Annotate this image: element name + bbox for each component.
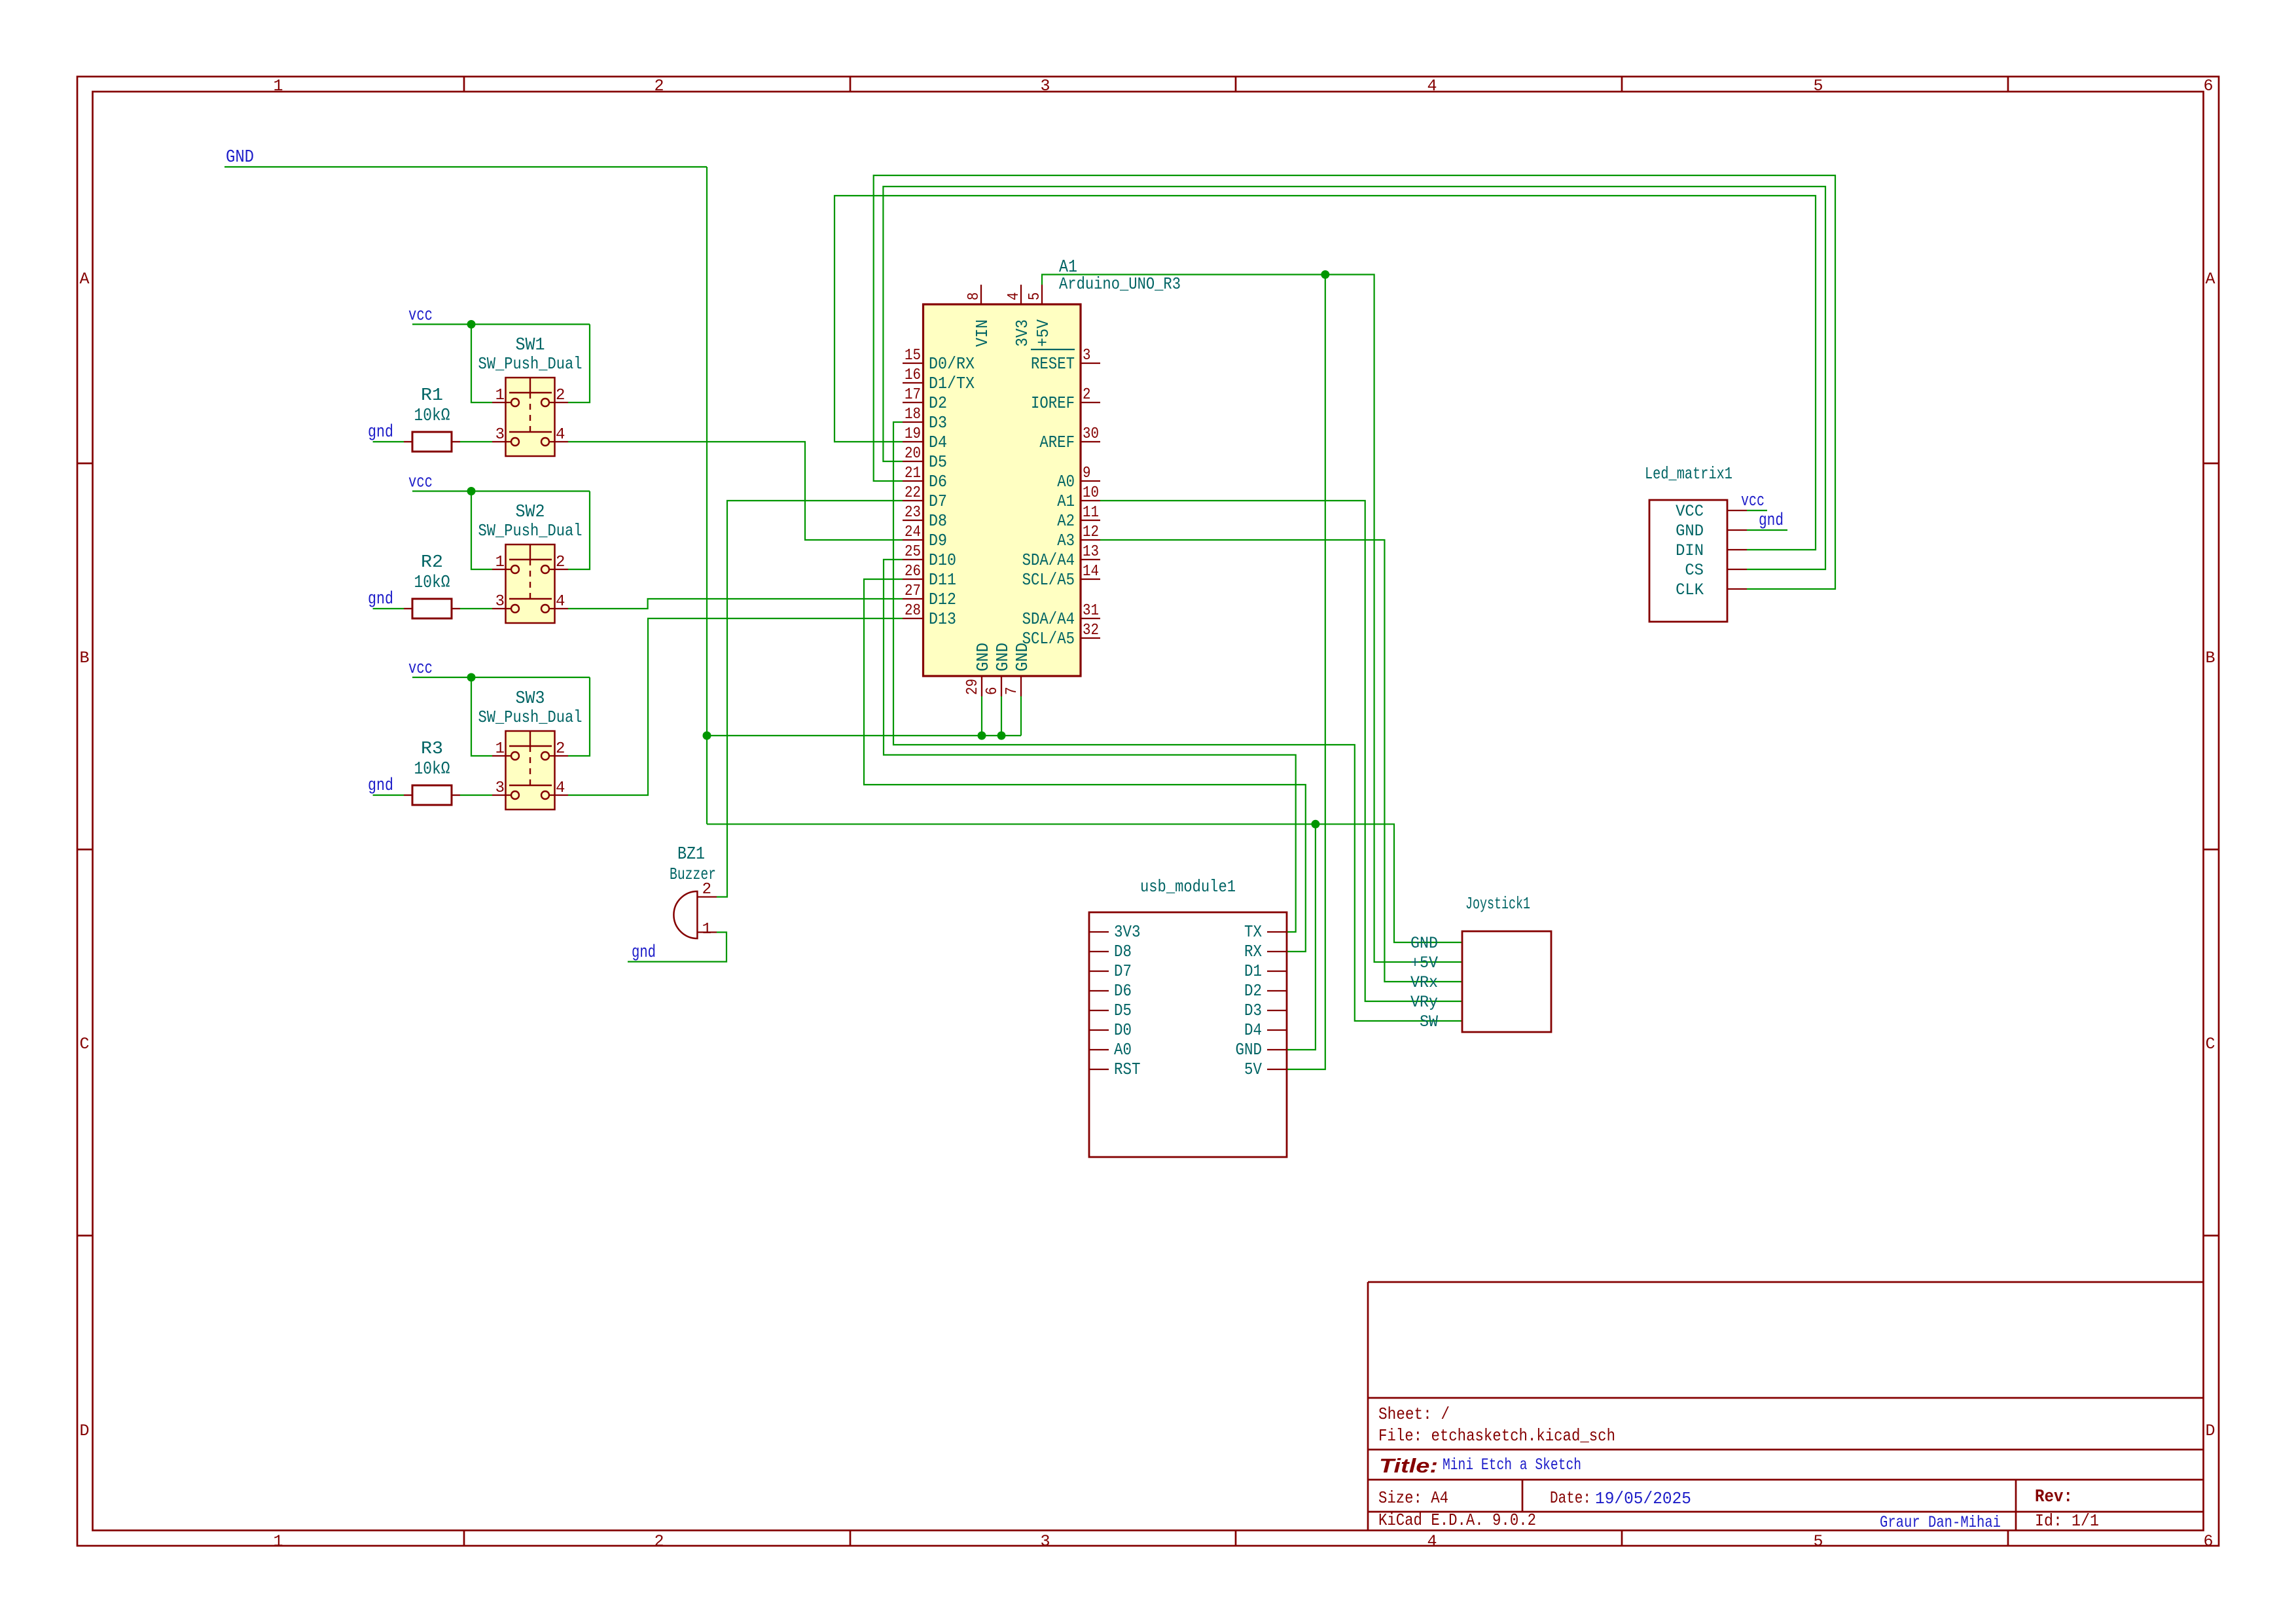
svg-text:26: 26	[905, 563, 921, 580]
svg-text:Graur Dan-Mihai: Graur Dan-Mihai	[1880, 1513, 2001, 1532]
svg-text:16: 16	[905, 366, 921, 384]
wire D10 to usb TX	[884, 560, 1296, 932]
svg-text:SDA/A4: SDA/A4	[1022, 550, 1075, 570]
svg-text:CLK: CLK	[1676, 580, 1704, 599]
wire +5V to usb 5V	[1287, 275, 1325, 1070]
Led_matrix1 pin CLK	[1676, 580, 1747, 599]
svg-text:D12: D12	[929, 590, 956, 609]
wire SW2 pin4 to D12	[568, 599, 903, 609]
svg-text:RX: RX	[1244, 942, 1262, 961]
A1 pin 24 D9	[903, 524, 947, 550]
svg-text:GND: GND	[1013, 643, 1032, 671]
resistor R2	[404, 599, 460, 618]
svg-text:A3: A3	[1057, 531, 1075, 550]
A1 pin 2 IOREF	[1031, 386, 1100, 413]
svg-text:5: 5	[1813, 1532, 1823, 1551]
buzzer BZ1	[673, 891, 717, 938]
svg-text:RESET: RESET	[1031, 354, 1075, 374]
svg-text:25: 25	[905, 543, 921, 561]
junction GND pin29	[978, 732, 986, 740]
wire D3 to joystick SW	[893, 422, 1462, 1021]
svg-text:D: D	[2205, 1421, 2215, 1440]
svg-text:32: 32	[1083, 622, 1099, 639]
A1 pin 18 D3	[903, 406, 947, 433]
svg-text:4: 4	[556, 426, 565, 444]
svg-text:D: D	[79, 1421, 89, 1440]
svg-text:DIN: DIN	[1676, 541, 1704, 560]
svg-text:Arduino_UNO_R3: Arduino_UNO_R3	[1059, 274, 1181, 294]
svg-text:8: 8	[965, 293, 983, 301]
junction +5V	[1321, 270, 1329, 279]
svg-text:4: 4	[556, 779, 565, 797]
switch SW3 SW_Push_Dual	[492, 731, 568, 810]
svg-text:B: B	[79, 649, 89, 668]
wire CLK net: D6 to Led_matrix CLK	[874, 175, 1835, 589]
svg-text:10kΩ: 10kΩ	[414, 573, 450, 593]
wire SW2 pin2 to vcc	[568, 491, 590, 570]
svg-text:+5V: +5V	[1033, 319, 1053, 347]
usb_module1 pin 5V	[1244, 1060, 1287, 1079]
junction vcc3	[467, 673, 476, 682]
svg-text:gnd: gnd	[368, 590, 393, 609]
svg-text:GND: GND	[973, 643, 993, 671]
A1 pin 19 D4	[903, 425, 947, 452]
svg-text:A1: A1	[1057, 491, 1075, 511]
svg-text:D1/TX: D1/TX	[929, 374, 975, 393]
svg-text:GND: GND	[1676, 522, 1704, 541]
svg-text:D1: D1	[1244, 961, 1262, 981]
Joystick1 body	[1462, 931, 1551, 1032]
A1 pin 9 A0	[1057, 465, 1100, 491]
junction vcc2	[467, 487, 476, 495]
svg-text:D5: D5	[1114, 1001, 1132, 1020]
wire SW3 pin4 to D13	[568, 618, 903, 795]
svg-text:1: 1	[495, 554, 505, 571]
svg-text:D6: D6	[1114, 981, 1132, 1001]
A1 pin 32 SCL/A5	[1022, 622, 1100, 649]
svg-text:3: 3	[495, 779, 505, 797]
svg-text:5V: 5V	[1244, 1060, 1262, 1079]
A1 pin 28 D13	[903, 602, 956, 629]
Led_matrix1 pin CS	[1685, 561, 1747, 580]
svg-text:5: 5	[1026, 293, 1044, 301]
usb_module1 pin D3	[1244, 1001, 1287, 1020]
svg-text:D0/RX: D0/RX	[929, 354, 975, 374]
svg-text:12: 12	[1083, 524, 1099, 541]
svg-text:SW3: SW3	[516, 689, 545, 709]
wire vcc1 horizontal	[412, 323, 590, 325]
svg-text:vcc: vcc	[408, 473, 433, 493]
arduino A1 body	[924, 304, 1081, 676]
svg-text:2: 2	[556, 740, 565, 758]
svg-text:TX: TX	[1244, 922, 1262, 942]
svg-text:28: 28	[905, 602, 921, 620]
svg-text:R2: R2	[421, 553, 443, 573]
svg-text:D5: D5	[929, 452, 947, 472]
svg-text:D4: D4	[1244, 1020, 1262, 1040]
svg-text:20: 20	[905, 445, 921, 463]
svg-text:RST: RST	[1114, 1060, 1141, 1079]
A1 pin 11 A2	[1057, 504, 1100, 531]
svg-text:R3: R3	[421, 740, 443, 759]
svg-text:3V3: 3V3	[1114, 922, 1141, 942]
usb_module1 pin D4	[1244, 1020, 1287, 1040]
svg-text:D7: D7	[929, 491, 947, 511]
A1 pin 6 GND	[984, 643, 1013, 696]
svg-text:11: 11	[1083, 504, 1099, 522]
svg-text:KiCad E.D.A. 9.0.2: KiCad E.D.A. 9.0.2	[1378, 1510, 1536, 1530]
svg-text:gnd: gnd	[1759, 511, 1784, 531]
svg-text:1: 1	[495, 387, 505, 404]
svg-text:4: 4	[1427, 1532, 1437, 1551]
title block texts	[1378, 1404, 2099, 1532]
A1 pin 20 D5	[903, 445, 947, 472]
A1 pin 17 D2	[903, 386, 947, 413]
wire buzzer pin1 to gnd	[628, 933, 726, 962]
junction vcc1	[467, 320, 476, 329]
svg-text:1: 1	[702, 921, 711, 938]
svg-text:2: 2	[556, 387, 565, 404]
svg-text:1: 1	[273, 1532, 283, 1551]
svg-text:Size: A4: Size: A4	[1378, 1488, 1448, 1508]
usb_module1 body	[1089, 912, 1287, 1157]
svg-text:GND: GND	[226, 148, 254, 168]
A1 pin 25 D10	[903, 543, 956, 570]
A1 pin 4 3V3	[1005, 285, 1032, 347]
A1 pin 21 D6	[903, 465, 947, 491]
svg-text:D4: D4	[929, 433, 947, 452]
Led_matrix1 pin GND	[1676, 522, 1747, 541]
svg-text:GND: GND	[1410, 934, 1438, 953]
A1 pin 14 SCL/A5	[1022, 563, 1100, 590]
usb_module1 pin D2	[1244, 981, 1287, 1001]
svg-text:10kΩ: 10kΩ	[414, 760, 450, 779]
A1 pin 10 A1	[1057, 484, 1100, 511]
wire GND bottom to joystick	[707, 824, 1462, 942]
svg-text:SCL/A5: SCL/A5	[1022, 570, 1075, 590]
svg-text:vcc: vcc	[408, 659, 433, 679]
wire SW3 pin2 to vcc	[568, 677, 590, 756]
svg-text:22: 22	[905, 484, 921, 502]
svg-text:SW_Push_Dual: SW_Push_Dual	[478, 707, 583, 727]
svg-text:VCC: VCC	[1676, 502, 1704, 521]
A1 pin 22 D7	[903, 484, 947, 511]
svg-text:2: 2	[654, 1532, 664, 1551]
wire vcc1 to SW1 pin1	[471, 325, 492, 403]
svg-text:Sheet: /: Sheet: /	[1378, 1404, 1450, 1424]
usb_module1 pin D8	[1089, 942, 1132, 961]
svg-text:2: 2	[1083, 386, 1091, 404]
svg-text:30: 30	[1083, 425, 1099, 443]
svg-text:Mini Etch a Sketch: Mini Etch a Sketch	[1443, 1455, 1581, 1474]
A1 pin 29 GND	[964, 643, 993, 696]
svg-text:3V3: 3V3	[1013, 319, 1032, 347]
usb_module1 pin RST	[1089, 1060, 1141, 1079]
wire DIN net: D4 to Led_matrix DIN	[834, 196, 1816, 550]
svg-text:4: 4	[556, 593, 565, 611]
svg-text:D8: D8	[1114, 942, 1132, 961]
switch SW2 SW_Push_Dual	[492, 544, 568, 623]
svg-text:Id: 1/1: Id: 1/1	[2035, 1511, 2099, 1531]
wire R1 to SW1 pin3	[460, 441, 492, 442]
wire CS net: D5 to Led_matrix CS	[883, 187, 1825, 569]
svg-text:D0: D0	[1114, 1020, 1132, 1040]
svg-text:BZ1: BZ1	[677, 845, 705, 865]
svg-text:17: 17	[905, 386, 921, 404]
svg-text:D6: D6	[929, 472, 947, 491]
A1 pin 7 GND	[1003, 643, 1032, 696]
svg-text:5: 5	[1813, 77, 1823, 96]
svg-text:D2: D2	[1244, 981, 1262, 1001]
svg-text:VRx: VRx	[1410, 973, 1438, 992]
usb_module1 pin RX	[1244, 942, 1287, 961]
wire A1 to joystick VRy	[1100, 501, 1462, 1001]
wire gnd to R3	[373, 794, 404, 796]
A1 pin 26 D11	[903, 563, 956, 590]
wire Led_matrix vcc stub	[1747, 510, 1767, 511]
Led_matrix1 pin DIN	[1676, 541, 1747, 560]
svg-text:C: C	[2205, 1035, 2215, 1054]
svg-text:1: 1	[273, 77, 283, 96]
usb_module1 pin GND	[1236, 1040, 1287, 1060]
wire GND pin6 stub	[1001, 696, 1002, 736]
svg-text:3: 3	[495, 593, 505, 611]
wire +5V net	[1042, 275, 1462, 963]
svg-text:3: 3	[1083, 347, 1091, 365]
svg-text:18: 18	[905, 406, 921, 423]
svg-text:SDA/A4: SDA/A4	[1022, 609, 1075, 629]
svg-text:CS: CS	[1685, 561, 1704, 580]
svg-text:SW1: SW1	[516, 336, 545, 355]
svg-text:D10: D10	[929, 550, 956, 570]
svg-text:15: 15	[905, 347, 921, 365]
svg-text:File: etchasketch.kicad_sch: File: etchasketch.kicad_sch	[1378, 1426, 1615, 1446]
wire GND horizontal top	[224, 166, 707, 168]
svg-text:19/05/2025: 19/05/2025	[1595, 1489, 1691, 1508]
usb_module1 pin D5	[1089, 1001, 1132, 1020]
svg-text:Date:: Date:	[1550, 1488, 1591, 1508]
svg-text:D13: D13	[929, 609, 956, 629]
svg-text:SW_Push_Dual: SW_Push_Dual	[478, 521, 583, 541]
svg-text:1: 1	[495, 740, 505, 758]
svg-text:Title:: Title:	[1379, 1454, 1438, 1477]
svg-text:23: 23	[905, 504, 921, 522]
wire GND vertical	[706, 167, 708, 824]
svg-text:gnd: gnd	[368, 423, 393, 442]
svg-text:Led_matrix1: Led_matrix1	[1645, 464, 1732, 484]
svg-text:D7: D7	[1114, 961, 1132, 981]
svg-text:2: 2	[556, 554, 565, 571]
Led_matrix1 pin VCC	[1676, 502, 1747, 521]
svg-text:3: 3	[495, 426, 505, 444]
svg-text:27: 27	[905, 582, 921, 600]
svg-text:10kΩ: 10kΩ	[414, 406, 450, 426]
wire gnd to R2	[373, 608, 404, 609]
svg-text:D3: D3	[1244, 1001, 1262, 1020]
svg-text:B: B	[2205, 649, 2215, 668]
svg-text:VIN: VIN	[973, 319, 992, 347]
svg-text:SW: SW	[1420, 1012, 1438, 1031]
svg-text:24: 24	[905, 524, 921, 541]
svg-text:10: 10	[1083, 484, 1099, 502]
svg-text:Joystick1: Joystick1	[1465, 894, 1530, 914]
switch SW1 SW_Push_Dual	[492, 378, 568, 456]
svg-text:21: 21	[905, 465, 921, 482]
svg-text:usb_module1: usb_module1	[1140, 877, 1236, 897]
svg-text:A0: A0	[1057, 472, 1075, 491]
wire SW1 pin4 to D9	[568, 442, 903, 540]
svg-text:D8: D8	[929, 511, 947, 531]
svg-text:AREF: AREF	[1039, 433, 1075, 452]
A1 pin 15 D0/RX	[903, 347, 975, 374]
svg-text:gnd: gnd	[632, 943, 656, 963]
wire vcc3 horizontal	[412, 677, 590, 678]
usb_module1 pin TX	[1244, 922, 1287, 942]
wire R3 to SW3 pin3	[460, 794, 492, 796]
svg-text:6: 6	[2203, 77, 2213, 96]
svg-text:vcc: vcc	[1741, 491, 1765, 511]
svg-text:vcc: vcc	[408, 306, 433, 326]
svg-text:A2: A2	[1057, 511, 1075, 531]
title block	[1368, 1282, 2204, 1531]
A1 pin 5 +5V	[1026, 285, 1053, 347]
wire GND pin7 stub	[1020, 696, 1022, 736]
usb_module1 pin D1	[1244, 961, 1287, 981]
svg-text:C: C	[79, 1035, 89, 1054]
usb_module1 pin D7	[1089, 961, 1132, 981]
svg-text:D9: D9	[929, 531, 947, 550]
usb_module1 pin D0	[1089, 1020, 1132, 1040]
svg-text:IOREF: IOREF	[1031, 393, 1075, 413]
wire SW1 pin2 to vcc	[568, 325, 590, 403]
svg-text:4: 4	[1427, 77, 1437, 96]
svg-text:9: 9	[1083, 465, 1091, 482]
junction GND vertical	[703, 732, 711, 740]
A1 pin 8 VIN	[965, 285, 992, 347]
svg-text:6: 6	[984, 687, 1001, 696]
wire vcc2 to SW2 pin1	[471, 491, 492, 570]
svg-text:A: A	[2205, 270, 2215, 289]
svg-text:A0: A0	[1114, 1040, 1132, 1060]
wire usb GND	[1287, 824, 1316, 1050]
svg-text:3: 3	[1040, 77, 1050, 96]
svg-text:7: 7	[1003, 687, 1021, 696]
wire vcc3 to SW3 pin1	[471, 677, 492, 756]
A1 pin 31 SDA/A4	[1022, 602, 1100, 629]
wire GND pin29 stub	[981, 696, 982, 736]
svg-text:29: 29	[964, 679, 982, 695]
wire A3 to joystick VRx	[1100, 540, 1462, 982]
svg-text:13: 13	[1083, 543, 1099, 561]
wire R2 to SW2 pin3	[460, 608, 492, 609]
svg-text:Rev:: Rev:	[2035, 1488, 2073, 1507]
A1 pin 23 D8	[903, 504, 947, 531]
wire vcc2 horizontal	[412, 490, 590, 491]
A1 pin 13 SDA/A4	[1022, 543, 1100, 570]
svg-text:GND: GND	[1236, 1040, 1263, 1060]
resistor R1	[404, 432, 460, 452]
Led_matrix1 body	[1649, 500, 1727, 622]
resistor R3	[404, 785, 460, 805]
usb_module1 pin D6	[1089, 981, 1132, 1001]
svg-text:4: 4	[1005, 293, 1023, 301]
svg-text:+5V: +5V	[1410, 954, 1438, 972]
svg-text:31: 31	[1083, 602, 1099, 620]
svg-text:2: 2	[654, 77, 664, 96]
svg-text:19: 19	[905, 425, 921, 443]
svg-text:A: A	[79, 270, 89, 289]
svg-text:Buzzer: Buzzer	[670, 865, 716, 884]
wire D11 to usb RX	[864, 579, 1306, 952]
wire gnd to R1	[373, 441, 404, 442]
wire Led_matrix gnd stub	[1747, 529, 1787, 531]
svg-text:R1: R1	[421, 386, 443, 406]
svg-text:SW_Push_Dual: SW_Push_Dual	[478, 354, 583, 374]
svg-text:D2: D2	[929, 393, 947, 413]
svg-text:GND: GND	[993, 643, 1013, 671]
junction GND usb	[1311, 820, 1319, 829]
A1 pin 3 RESET	[1031, 347, 1100, 374]
A1 pin 30 AREF	[1039, 425, 1100, 452]
usb_module1 pin A0	[1089, 1040, 1132, 1060]
wire D7 to buzzer pin2	[717, 501, 903, 897]
svg-text:D3: D3	[929, 413, 947, 433]
svg-text:VRy: VRy	[1410, 993, 1438, 1012]
A1 pin 12 A3	[1057, 524, 1100, 550]
A1 pin 16 D1/TX	[903, 366, 975, 393]
wire GND branch to Arduino GND pins	[707, 735, 1021, 736]
junction GND pin6	[997, 732, 1006, 740]
svg-text:D11: D11	[929, 570, 956, 590]
svg-text:3: 3	[1040, 1532, 1050, 1551]
svg-text:14: 14	[1083, 563, 1099, 580]
svg-text:gnd: gnd	[368, 776, 393, 796]
svg-text:6: 6	[2203, 1532, 2213, 1551]
usb_module1 pin 3V3	[1089, 922, 1141, 942]
A1 pin 27 D12	[903, 582, 956, 609]
svg-text:SW2: SW2	[516, 503, 545, 522]
